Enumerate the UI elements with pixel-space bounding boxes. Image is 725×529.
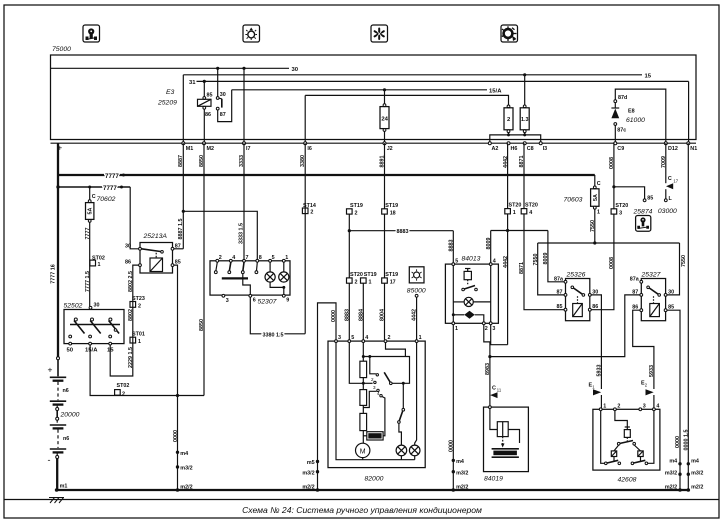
battery positive rail <box>57 143 59 357</box>
svg-text:0008: 0008 <box>609 257 615 269</box>
25327 pin 86 <box>640 309 643 312</box>
fuse output bar to A2 and I3 <box>490 135 541 143</box>
svg-text:8871: 8871 <box>519 262 525 274</box>
svg-text:+: + <box>48 365 53 375</box>
svg-text:25213A: 25213A <box>143 233 168 240</box>
wire 0008 down to 25326 86 <box>591 214 614 310</box>
wire 0000 from 84013 pin1 to ground <box>452 325 454 490</box>
battery tap circles and 20000 <box>56 406 58 408</box>
svg-text:85: 85 <box>557 304 563 310</box>
svg-text:2: 2 <box>485 326 488 332</box>
svg-text:25327: 25327 <box>641 271 661 278</box>
svg-text:5: 5 <box>351 335 354 341</box>
svg-text:3380: 3380 <box>300 155 306 167</box>
25327 pin 30 <box>664 294 667 297</box>
relay E3 pin 86 <box>203 106 206 109</box>
wire 85 to ground column <box>174 265 178 490</box>
bus 30 <box>51 67 290 69</box>
terminal m2/2 <box>452 488 456 492</box>
42608 pin 1 <box>599 408 602 411</box>
terminal A2 <box>488 142 491 145</box>
42608 motor squares <box>611 451 616 457</box>
relay E3 coil wire from line31 <box>203 81 205 97</box>
84013 inner left rail <box>452 266 454 322</box>
svg-text:8887 1.5: 8887 1.5 <box>178 219 184 240</box>
switch 52307 box <box>210 261 290 295</box>
wire 8883 vertical <box>348 214 350 278</box>
svg-text:ST19: ST19 <box>364 272 377 278</box>
82000 inner ground rail <box>336 343 415 460</box>
42608 resistor top <box>624 430 630 438</box>
82000 selector feed line <box>362 355 365 358</box>
illumination symbol 85000 <box>409 267 424 283</box>
25326 pin 30 <box>588 294 591 297</box>
svg-text:3: 3 <box>226 298 229 304</box>
svg-text:8850: 8850 <box>199 319 205 331</box>
svg-text:1: 1 <box>513 210 516 216</box>
svg-text:m4: m4 <box>691 458 699 464</box>
svg-text:03000: 03000 <box>658 208 677 215</box>
svg-text:50: 50 <box>67 348 74 354</box>
node 0008 branch to 25874 <box>612 185 615 188</box>
svg-text:5: 5 <box>272 255 275 261</box>
wire 7777 below fuse <box>89 222 91 306</box>
svg-text:m3/2: m3/2 <box>691 471 703 477</box>
wire 15/A down <box>90 345 204 396</box>
svg-text:m4: m4 <box>180 451 188 457</box>
terminal m4 <box>678 462 681 465</box>
25326 pin 85 <box>564 308 567 311</box>
battery cell 2 <box>50 400 66 402</box>
terminal m3/2 <box>316 470 319 473</box>
terminal m3/2 <box>678 473 681 476</box>
84013 pin 3 <box>489 322 492 325</box>
wire 7550 to 25327 30 <box>667 243 680 295</box>
svg-text:17: 17 <box>673 178 678 183</box>
svg-text:5A: 5A <box>593 194 599 201</box>
svg-text:2: 2 <box>388 335 391 341</box>
wire 3333 I7 drop <box>243 143 245 259</box>
wire M2 8850 drop <box>203 143 205 395</box>
svg-text:2: 2 <box>355 210 358 216</box>
node fuse 70602 tap <box>88 186 91 189</box>
battery dashed link <box>57 382 59 401</box>
svg-text:m3/2: m3/2 <box>302 470 314 476</box>
svg-text:7550: 7550 <box>590 220 596 232</box>
terminal H6 <box>507 142 510 145</box>
svg-text:3: 3 <box>619 210 622 216</box>
svg-text:8871: 8871 <box>519 156 525 168</box>
terminal J2 <box>383 142 386 145</box>
terminal m2/2 <box>678 488 682 492</box>
svg-text:0000 1.5: 0000 1.5 <box>684 430 690 451</box>
svg-text:6: 6 <box>253 297 256 303</box>
wire E3 87 hook to line 15/A <box>218 90 232 122</box>
svg-text:8802 2.5: 8802 2.5 <box>128 271 134 292</box>
terminal m3/2 <box>452 470 455 473</box>
terminal C9 <box>614 142 617 145</box>
svg-text:m5: m5 <box>307 460 315 466</box>
svg-text:3: 3 <box>643 404 646 410</box>
42608 blade row 2 <box>605 462 608 465</box>
82000 pin5 tap <box>349 343 363 384</box>
relay E3 pin 87 <box>216 107 219 110</box>
relay 25213A blade <box>141 249 160 252</box>
svg-text:2229 1.5: 2229 1.5 <box>128 347 134 368</box>
wire 7550 fuse tail <box>594 209 596 243</box>
svg-text:8883: 8883 <box>397 229 409 235</box>
25326 coil <box>573 304 583 317</box>
wire 8009 to 84013 pin4 <box>490 231 492 263</box>
svg-text:84019: 84019 <box>484 476 503 483</box>
52307 pin 8 <box>256 259 259 262</box>
terminal C8 <box>523 142 526 145</box>
svg-text:3: 3 <box>373 385 376 390</box>
svg-text:84013: 84013 <box>462 256 481 263</box>
svg-text:30: 30 <box>125 243 131 249</box>
svg-text:4: 4 <box>529 210 532 216</box>
84019 solenoid <box>497 422 508 437</box>
fuse 2 <box>507 105 510 108</box>
84013 switch blade <box>462 288 465 291</box>
svg-text:85000: 85000 <box>407 287 426 294</box>
svg-text:4: 4 <box>656 404 659 410</box>
25327 pin 85 <box>664 309 667 312</box>
battery cell 4 <box>50 448 66 450</box>
25327 pin 87 <box>640 294 643 297</box>
svg-text:C: C <box>668 176 672 182</box>
svg-text:30: 30 <box>220 92 226 98</box>
82000 ground wire 0000 to m5 <box>318 303 337 490</box>
battery cell 1 <box>50 376 66 378</box>
svg-text:E8: E8 <box>628 109 635 115</box>
svg-text:7777 16: 7777 16 <box>51 264 57 284</box>
bus 7777 second <box>58 186 130 188</box>
42608 wires pin2 to resistor <box>615 411 627 427</box>
25327 blade <box>647 286 650 289</box>
svg-text:5A: 5A <box>88 207 94 214</box>
52307 blades <box>216 262 217 271</box>
svg-text:31: 31 <box>189 80 196 86</box>
82000 selector blade <box>384 372 390 382</box>
wire 8891 J2 drop <box>384 143 386 209</box>
svg-text:0000: 0000 <box>448 440 454 452</box>
svg-text:ST23: ST23 <box>132 296 145 302</box>
svg-text:4: 4 <box>232 255 235 261</box>
wire 4442 H6 drop <box>507 143 509 208</box>
svg-text:2: 2 <box>122 391 125 397</box>
node on bus 30 (E3 pin30 riser) <box>216 67 219 70</box>
82000 ptc resistor <box>368 433 381 438</box>
fuse 24 <box>384 90 386 104</box>
svg-text:ST01: ST01 <box>132 332 145 338</box>
52307 lamp returns to pin 9 <box>270 282 284 294</box>
82000 lamp switch blade <box>402 408 405 411</box>
fuse 70603 from 7777 bus <box>594 175 596 186</box>
svg-text:1: 1 <box>285 255 288 261</box>
42608 pin 4 <box>653 408 656 411</box>
wire 4442 tail to 84013 pin3 <box>491 325 508 345</box>
82000 lamp 2 from pin 1 <box>415 343 417 446</box>
svg-text:m3/2: m3/2 <box>456 470 468 476</box>
wire I6 riser <box>304 95 306 143</box>
svg-text:ST20: ST20 <box>615 203 628 209</box>
svg-text:82000: 82000 <box>365 476 384 483</box>
svg-text:ST20: ST20 <box>509 203 522 209</box>
icon: lighting bulb symbol box <box>243 25 260 42</box>
terminal m3/2 <box>176 465 179 468</box>
svg-text:3: 3 <box>338 335 341 341</box>
terminal m4 <box>452 459 455 462</box>
52307 pin 1 <box>282 259 285 262</box>
svg-text:8891: 8891 <box>380 156 386 168</box>
switch 25874 branch <box>614 187 645 199</box>
svg-text:ST19: ST19 <box>385 272 398 278</box>
25326 pin 87 <box>564 294 567 297</box>
svg-text:H6: H6 <box>511 146 518 152</box>
svg-text:3333 1.5: 3333 1.5 <box>239 223 245 244</box>
25327 pin 87a <box>640 280 643 283</box>
svg-text:C8: C8 <box>527 146 534 152</box>
line I6 feed to fuse 2 <box>305 95 508 105</box>
svg-text:ST20: ST20 <box>525 203 538 209</box>
terminal M1 <box>182 142 185 145</box>
svg-text:7550: 7550 <box>533 254 539 266</box>
svg-text:m4: m4 <box>669 458 677 464</box>
terminal m1 <box>55 488 59 492</box>
battery dashed link <box>57 430 59 449</box>
switch 52502 internal common bar <box>70 324 120 326</box>
svg-text:m2/2: m2/2 <box>180 484 192 490</box>
svg-text:85: 85 <box>647 196 653 202</box>
terminal m5 <box>316 460 319 463</box>
svg-text:4442: 4442 <box>411 309 417 321</box>
svg-text:52307: 52307 <box>258 298 277 305</box>
svg-text:m1: m1 <box>60 484 68 490</box>
svg-text:8887: 8887 <box>178 155 184 167</box>
svg-text:87c: 87c <box>617 128 626 134</box>
terminal I3 <box>539 142 542 145</box>
svg-text:I6: I6 <box>307 146 312 152</box>
svg-text:-: - <box>48 455 51 465</box>
diode E8 61000 branch C9 <box>614 125 616 143</box>
wire 25326 30 to E1 <box>591 295 601 389</box>
svg-text:2: 2 <box>617 404 620 410</box>
svg-text:m2/2: m2/2 <box>665 484 677 490</box>
svg-text:15/A: 15/A <box>85 348 98 354</box>
82000 pin2 wire <box>386 343 406 357</box>
svg-text:87d: 87d <box>618 95 627 101</box>
terminal m2/2 <box>687 488 691 492</box>
wire 8983 to 25327 87 <box>490 295 640 357</box>
compressor clutch 84019 <box>484 407 529 472</box>
wire I7 riser <box>243 68 245 143</box>
battery cell 3 <box>50 424 66 426</box>
wire 3380 from I6 to pin 6 <box>304 143 306 334</box>
wire 86 to 8802 <box>110 265 138 376</box>
wire 8009 to relay 25326 87a <box>548 231 564 282</box>
52307 bar to pin 6 <box>243 274 251 295</box>
svg-text:M1: M1 <box>186 146 194 152</box>
wire 8983 clutch feed <box>484 325 490 406</box>
relay E3 coil <box>198 99 212 106</box>
84013 pin 5 <box>452 263 455 266</box>
wire E3 86 down to M2 <box>203 109 205 143</box>
svg-text:42608: 42608 <box>618 477 637 484</box>
terminal M2 <box>203 142 206 145</box>
svg-text:4442: 4442 <box>503 156 509 168</box>
svg-text:4: 4 <box>493 258 496 264</box>
82000 pin 1 <box>415 340 418 343</box>
82000 selector contact 1 <box>370 357 376 374</box>
42608 pin 3 <box>639 408 642 411</box>
svg-text:86: 86 <box>205 112 211 118</box>
svg-text:75000: 75000 <box>52 46 71 53</box>
svg-text:5933: 5933 <box>649 365 655 377</box>
svg-text:25326: 25326 <box>566 271 586 278</box>
52307 pin 6 <box>249 294 252 297</box>
svg-text:8883: 8883 <box>344 309 350 321</box>
line 15 <box>183 74 642 76</box>
svg-text:2: 2 <box>219 255 222 261</box>
terminal m4 <box>687 462 690 465</box>
svg-text:17: 17 <box>390 280 396 286</box>
84013 inner right rail <box>490 266 492 322</box>
svg-text:87: 87 <box>557 289 563 295</box>
node at 15/A return <box>176 394 179 397</box>
svg-text:m3/2: m3/2 <box>665 471 677 477</box>
82000 selector contact 2 <box>362 382 365 385</box>
svg-text:25874: 25874 <box>633 209 653 216</box>
wire 31 down to N1 <box>688 81 690 143</box>
wire 4442 to panel pin1 <box>416 297 418 340</box>
svg-text:70603: 70603 <box>564 196 583 203</box>
42608 blade row 1 <box>626 437 628 441</box>
svg-text:C: C <box>492 386 496 392</box>
svg-text:7777: 7777 <box>85 228 91 240</box>
terminal I7 <box>243 142 246 145</box>
svg-text:7777: 7777 <box>105 173 119 180</box>
wire 8883 horizontal to 84013 <box>349 230 453 232</box>
42608 inner wires <box>600 411 602 462</box>
svg-text:5: 5 <box>455 258 458 264</box>
svg-text:8850: 8850 <box>199 155 205 167</box>
svg-text:1: 1 <box>138 339 141 345</box>
icon: ignition key symbol box <box>83 25 100 42</box>
svg-text:0008: 0008 <box>609 157 615 169</box>
switch 52502 pins 50 15/A 15 <box>69 342 72 345</box>
svg-text:1: 1 <box>603 404 606 410</box>
svg-text:8009: 8009 <box>543 253 549 265</box>
fuse/relay box 75000 outline <box>51 55 697 140</box>
svg-text:J2: J2 <box>387 146 393 152</box>
25326 pin 87a <box>564 280 567 283</box>
wire 8009 bar <box>491 230 548 232</box>
svg-text:2: 2 <box>138 303 141 309</box>
svg-text:30: 30 <box>668 289 674 295</box>
icon: sun/compressor symbol box <box>501 25 518 42</box>
wire M1 riser <box>182 75 184 143</box>
82000 resistor chain from pin 4 <box>362 343 364 362</box>
svg-text:C: C <box>92 194 96 200</box>
terminal m2/2 <box>316 488 320 492</box>
node on line 15 (fuse 1.3) <box>523 73 526 76</box>
svg-text:I3: I3 <box>543 146 548 152</box>
svg-text:7: 7 <box>246 255 249 261</box>
terminal I6 <box>304 142 307 145</box>
svg-text:C9: C9 <box>617 146 624 152</box>
svg-text:I7: I7 <box>246 146 251 152</box>
svg-text:87: 87 <box>220 112 226 118</box>
25327 coil <box>650 304 660 317</box>
svg-text:C: C <box>597 181 601 187</box>
svg-text:ST19: ST19 <box>385 203 398 209</box>
svg-text:A2: A2 <box>492 146 499 152</box>
82000 pin 5 <box>348 340 351 343</box>
svg-text:3333: 3333 <box>239 155 245 167</box>
52307 pin 9 <box>282 294 285 297</box>
svg-text:52502: 52502 <box>64 302 83 309</box>
svg-text:1: 1 <box>369 280 372 286</box>
52307 pin 3 <box>222 294 225 297</box>
svg-text:8884: 8884 <box>358 309 364 321</box>
svg-text:1: 1 <box>98 262 101 268</box>
svg-text:7009: 7009 <box>661 156 667 168</box>
84013 led <box>452 313 455 316</box>
svg-text:3: 3 <box>492 326 495 332</box>
svg-text:1.3: 1.3 <box>521 117 529 123</box>
svg-text:8004: 8004 <box>380 309 386 321</box>
switch 52502 blades <box>69 318 85 338</box>
svg-text:0000: 0000 <box>173 430 179 442</box>
connector C17 from D12 <box>665 143 667 183</box>
82000 pin 3 <box>335 340 338 343</box>
25326 blade <box>571 286 574 289</box>
svg-text:87a: 87a <box>554 277 564 283</box>
svg-text:24: 24 <box>381 117 388 123</box>
25326 pin 86 <box>588 308 591 311</box>
node 4442 / 8009 tee <box>506 229 509 232</box>
84013 thermo element <box>464 271 471 279</box>
82000 lamp switch drop <box>402 383 404 408</box>
wire 8887 M1 drop <box>182 143 184 249</box>
wire 7550 distribution bar <box>538 242 680 244</box>
svg-text:11: 11 <box>497 388 502 393</box>
svg-text:M2: M2 <box>207 146 215 152</box>
terminal m4 <box>176 451 179 454</box>
svg-text:ST19: ST19 <box>350 203 363 209</box>
svg-text:4442: 4442 <box>503 256 509 268</box>
84013 lamp <box>464 297 473 306</box>
svg-text:7777: 7777 <box>103 185 117 192</box>
svg-text:ST02: ST02 <box>117 383 130 389</box>
svg-text:85: 85 <box>207 93 213 99</box>
svg-text:M: M <box>360 448 366 455</box>
relay E3 pin 30 <box>217 68 219 97</box>
svg-text:1: 1 <box>455 326 458 332</box>
wire 7777 to relay 25213A pin30 <box>130 187 138 249</box>
svg-text:86: 86 <box>125 260 131 266</box>
84013 pin 4 <box>489 263 492 266</box>
wire 8871 C8 drop <box>523 143 525 208</box>
svg-text:30: 30 <box>94 302 100 308</box>
wire 25327 86 to E2 <box>633 310 654 389</box>
svg-text:18: 18 <box>390 210 396 216</box>
svg-text:E3: E3 <box>166 89 175 96</box>
relay 25213A coil <box>150 258 163 272</box>
plus bus <box>51 142 697 144</box>
svg-text:2: 2 <box>310 210 313 216</box>
